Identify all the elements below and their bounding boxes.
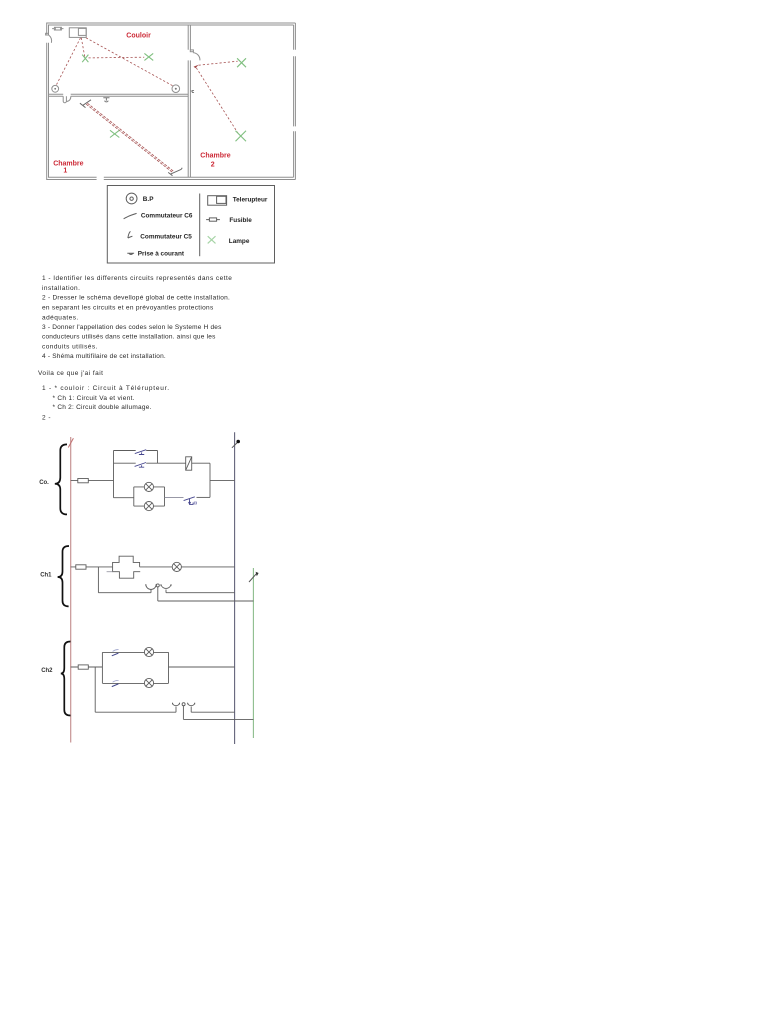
svg-text:* Ch 2: Circuit double allumag: * Ch 2: Circuit double allumage.: [53, 404, 152, 411]
svg-text:Couloir: Couloir: [126, 33, 151, 40]
svg-text:2 - Dresser le schéma devellop: 2 - Dresser le schéma devellopé global d…: [42, 295, 230, 302]
svg-text:Lampe: Lampe: [229, 238, 250, 245]
svg-text:Commutateur C6: Commutateur C6: [141, 213, 193, 220]
svg-text:2: 2: [211, 162, 215, 169]
svg-text:conducteurs utilisés dans cett: conducteurs utilisés dans cette installa…: [42, 334, 216, 341]
svg-text:conduits utilisés.: conduits utilisés.: [42, 344, 98, 351]
svg-text:adéquates.: adéquates.: [42, 315, 79, 322]
svg-text:* Ch 1: Circuit Va et vient.: * Ch 1: Circuit Va et vient.: [53, 395, 135, 402]
svg-text:1 - Identifier les differents: 1 - Identifier les differents circuits r…: [42, 275, 232, 282]
svg-text:Voila ce que j'ai fait: Voila ce que j'ai fait: [38, 370, 103, 377]
svg-text:Telerupteur: Telerupteur: [233, 197, 268, 204]
svg-text:installation.: installation.: [42, 285, 80, 292]
svg-text:B.P: B.P: [143, 196, 154, 203]
svg-text:Chambre: Chambre: [53, 160, 83, 167]
svg-text:Prise à courant: Prise à courant: [138, 251, 185, 258]
svg-text:4 - Shéma multifilaire de cet: 4 - Shéma multifilaire de cet installati…: [42, 353, 166, 360]
svg-text:Chambre: Chambre: [200, 153, 230, 160]
svg-text:Fusible: Fusible: [229, 217, 252, 224]
svg-text:2 -: 2 -: [42, 415, 51, 422]
svg-text:1 - * couloir : Circuit à Télé: 1 - * couloir : Circuit à Télérupteur.: [42, 385, 170, 392]
svg-text:Ch2: Ch2: [41, 668, 53, 674]
svg-text:Ch1: Ch1: [40, 573, 52, 579]
svg-text:c: c: [192, 89, 195, 95]
svg-text:Co.: Co.: [39, 480, 49, 486]
svg-text:en separant les circuits et en: en separant les circuits et en prévoyant…: [42, 305, 214, 312]
svg-text:3 - Donner l'appellation des c: 3 - Donner l'appellation des codes selon…: [42, 324, 222, 331]
svg-text:Commutateur C5: Commutateur C5: [140, 234, 192, 241]
svg-text:1: 1: [63, 168, 67, 175]
